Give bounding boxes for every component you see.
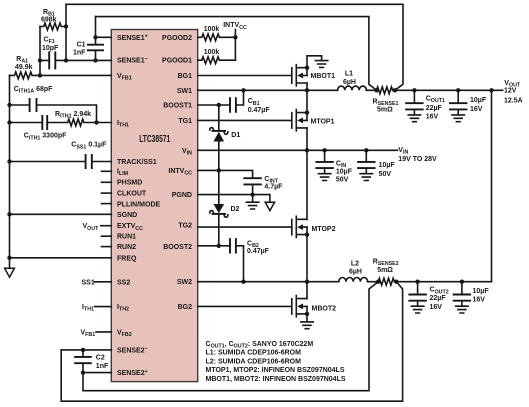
node MTOP1 source [305, 110, 309, 114]
svg-text:SS1: SS1 [82, 279, 95, 286]
wire PHSMD stub [102, 181, 112, 183]
node RSENSE2 right [394, 280, 398, 284]
svg-text:10µF: 10µF [336, 168, 353, 175]
wire ILIM stub [102, 170, 112, 172]
svg-text:1nF: 1nF [73, 50, 86, 57]
wire SENSE1+ kelvin top (to RSENSE1 left) [96, 17, 377, 91]
resistor RITH1 2.94k [47, 119, 111, 126]
svg-text:49.9k: 49.9k [15, 64, 33, 71]
svg-text:50V: 50V [379, 171, 392, 178]
inductor L2 6uH [339, 278, 368, 282]
svg-text:10µF: 10µF [470, 97, 487, 104]
svg-text:SW2: SW2 [177, 279, 192, 286]
svg-text:12V: 12V [504, 88, 517, 95]
node INTVCC pullup [233, 35, 237, 39]
svg-text:SENSE2−: SENSE2− [117, 346, 148, 354]
node RSENSE2 left [376, 280, 380, 284]
svg-text:6µH: 6µH [343, 79, 356, 86]
svg-text:4.7µF: 4.7µF [264, 184, 283, 191]
wire TRACK/SS1 net [10, 161, 112, 163]
svg-text:COUT1, COUT2: SANYO 1670C22M: COUT1, COUT2: SANYO 1670C22M [206, 341, 314, 350]
capacitor CB2 0.47uF [198, 246, 244, 282]
wire PGND net [198, 195, 270, 203]
node bus TRACK [7, 159, 11, 163]
svg-text:CITH1A 68pF: CITH1A 68pF [14, 86, 53, 95]
capacitor COUT1 22uF 16V [413, 90, 415, 103]
ground MBOT2 [301, 322, 313, 329]
resistor RSENSE1 5mohm [377, 87, 503, 94]
node bus SGND [7, 212, 11, 216]
svg-text:MBOT2: MBOT2 [312, 305, 337, 312]
svg-text:TRACK/SS1: TRACK/SS1 [117, 159, 157, 166]
svg-text:16V: 16V [473, 297, 486, 304]
node CIN [322, 148, 326, 152]
svg-text:L2: L2 [351, 260, 359, 267]
resistor RA1 49.9k [10, 72, 40, 79]
svg-text:BOOST2: BOOST2 [163, 244, 192, 251]
wire INTVCC net [198, 170, 253, 178]
svg-text:MBOT1: MBOT1 [311, 73, 336, 80]
svg-text:PGND: PGND [172, 192, 192, 199]
node VOUT rail [489, 88, 493, 92]
svg-text:TG2: TG2 [178, 222, 192, 229]
node 10uF ch1 [456, 88, 460, 92]
node SENSE1- / divider [64, 58, 68, 62]
svg-text:16V: 16V [430, 304, 443, 311]
svg-text:RSENSE2: RSENSE2 [373, 258, 399, 267]
wire FREQ net [10, 257, 112, 259]
node C2 top [81, 348, 85, 352]
node CB1 SW1 [241, 88, 245, 92]
svg-text:6µH: 6µH [349, 269, 362, 276]
svg-text:10pF: 10pF [42, 45, 59, 52]
svg-text:10µF: 10µF [379, 162, 396, 169]
svg-text:12.5A: 12.5A [504, 97, 523, 104]
wire CLKOUT stub [102, 192, 112, 194]
svg-text:SENSE1+: SENSE1+ [117, 34, 148, 42]
node SW1 [305, 88, 309, 92]
wire BG2 [198, 305, 292, 307]
svg-text:19V TO 28V: 19V TO 28V [398, 156, 437, 163]
svg-text:C2: C2 [96, 355, 105, 362]
wire MBOT2 source to ground [306, 306, 308, 322]
node RB1 right [64, 24, 68, 28]
svg-text:CLKOUT: CLKOUT [117, 191, 147, 198]
node COUT2 [415, 280, 419, 284]
diode D1 schottky [218, 105, 220, 170]
svg-text:CITH1 3300pF: CITH1 3300pF [24, 133, 67, 142]
capacitor CB1 0.47uF [198, 90, 244, 105]
svg-text:FREQ: FREQ [117, 255, 137, 262]
node D2 BOOST2 [217, 244, 221, 248]
svg-text:COUT2: COUT2 [430, 287, 449, 296]
diode D2 schottky [218, 170, 220, 245]
node ITH1 right [94, 120, 98, 124]
svg-text:100k: 100k [204, 26, 220, 33]
svg-text:CF1: CF1 [44, 37, 55, 46]
svg-text:22µF: 22µF [426, 105, 443, 112]
node SW2 [305, 280, 309, 284]
transistor MTOP1 [292, 110, 307, 131]
svg-text:COUT1: COUT1 [426, 96, 445, 105]
wire left SGND bus [9, 75, 11, 268]
svg-text:22µF: 22µF [430, 295, 447, 302]
svg-text:16V: 16V [426, 114, 439, 121]
svg-text:0.47µF: 0.47µF [248, 107, 271, 114]
node CINT PGND [250, 192, 254, 196]
svg-text:5mΩ: 5mΩ [377, 106, 393, 113]
svg-text:BOOST1: BOOST1 [163, 103, 192, 110]
svg-text:BG2: BG2 [178, 304, 193, 311]
resistor RSENSE2 5mohm [378, 278, 491, 285]
svg-text:VOUT: VOUT [83, 223, 100, 232]
svg-text:SENSE1−: SENSE1− [117, 57, 148, 65]
capacitor 10uF 50V (VIN) [365, 150, 367, 162]
wire MTOP2 drain to VIN [306, 150, 308, 219]
svg-text:ITH1: ITH1 [82, 304, 94, 313]
node COUT1 [412, 88, 416, 92]
capacitor 10uF 16V (VOUT ch2) [461, 282, 463, 295]
wire EXTVCC stub / node VOUT [101, 225, 112, 227]
node CB2 SW2 [241, 280, 245, 284]
svg-text:RUN2: RUN2 [117, 244, 136, 251]
wire C1 vertical / SENSE1+ kelvin corner x95.5 [95, 17, 97, 61]
node CF1 left [38, 58, 42, 62]
svg-text:CSS1 0.1µF: CSS1 0.1µF [71, 142, 107, 151]
node SENSE1+ [93, 35, 97, 39]
svg-text:SGND: SGND [117, 212, 137, 219]
svg-text:5mΩ: 5mΩ [377, 267, 393, 274]
capacitor C2 1nF [74, 357, 92, 363]
svg-text:MTOP1: MTOP1 [311, 118, 335, 125]
capacitor CF1 10pF [49, 51, 55, 69]
wire ITH2 stub / node ITH1 [95, 306, 112, 308]
svg-text:L2: SUMIDA CDEP106-6ROM: L2: SUMIDA CDEP106-6ROM [206, 358, 302, 365]
node D1 INTVCC [217, 168, 221, 172]
wire VFB2 stub / node VFB1 [96, 331, 111, 333]
wire SGND net [10, 213, 112, 215]
ground PGND arrow [265, 202, 274, 210]
svg-text:VFB1: VFB1 [81, 329, 96, 338]
svg-text:1nF: 1nF [96, 363, 109, 370]
svg-text:16V: 16V [470, 106, 483, 113]
node bus FREQ [7, 256, 11, 260]
wire ITH1 left segment [10, 122, 43, 124]
svg-text:10µF: 10µF [473, 288, 490, 295]
wire SENSE2- kelvin loop bottom [61, 282, 402, 402]
wire MTOP1 drain to VIN [306, 128, 308, 150]
wire VOUT right rail vertical [491, 90, 493, 281]
svg-text:0.47µF: 0.47µF [247, 248, 270, 255]
svg-text:D2: D2 [231, 206, 240, 213]
svg-text:VIN: VIN [398, 147, 408, 156]
svg-text:RUN1: RUN1 [117, 234, 136, 241]
wire SW2 rail [198, 281, 379, 283]
wire MBOT2 drain to SW2 [306, 282, 308, 299]
resistor 100k PGOOD1 pullup [198, 57, 236, 64]
IC U1 LTC3857-1 body [111, 30, 197, 382]
wire SS2 stub / node SS1 [95, 281, 112, 283]
svg-text:100k: 100k [204, 49, 220, 56]
node D1 BOOST1 [217, 103, 221, 107]
inductor L1 6uH [338, 86, 367, 90]
node VFB1 [38, 73, 42, 77]
node bus CITH1A [7, 103, 11, 107]
svg-text:L1: L1 [345, 71, 353, 78]
node 10uF VIN [364, 148, 368, 152]
svg-text:SS2: SS2 [117, 279, 130, 286]
wire CITH1A net [10, 105, 97, 123]
wire RUN2 stub [102, 246, 112, 248]
wire SENSE2+ kelvin loop bottom [83, 282, 378, 391]
svg-text:C1: C1 [77, 42, 86, 49]
svg-text:LTC38571: LTC38571 [139, 133, 170, 145]
svg-text:50V: 50V [336, 176, 349, 183]
wire TG2 [198, 226, 292, 228]
wire VIN rail [198, 149, 398, 151]
svg-text:L1: SUMIDA CDEP106-6ROM: L1: SUMIDA CDEP106-6ROM [206, 350, 302, 357]
capacitor CITH1 3300pF [42, 115, 47, 130]
transistor MBOT2 [292, 296, 307, 317]
svg-text:PGOOD1: PGOOD1 [162, 58, 192, 65]
capacitor CIN 10uF 50V [324, 150, 326, 162]
svg-text:MTOP1, MTOP2: INFINEON BSZ097N: MTOP1, MTOP2: INFINEON BSZ097N04LS [206, 367, 345, 374]
capacitor CSS1 0.1uF [86, 154, 92, 169]
wire MBOT1 drain to SW1 [306, 83, 308, 90]
wire TG1 [198, 119, 292, 121]
svg-text:MBOT1, MBOT2: INFINEON BSZ097N: MBOT1, MBOT2: INFINEON BSZ097N04LS [206, 376, 346, 383]
svg-text:698k: 698k [41, 17, 57, 24]
wire SENSE2- net [61, 349, 111, 351]
node MBOT2 source [305, 312, 309, 316]
svg-text:CB1: CB1 [248, 98, 260, 107]
node INTVCC pullup [234, 30, 236, 61]
capacitor 10uF 16V (VOUT ch1) [457, 90, 459, 103]
svg-text:PLLIN/MODE: PLLIN/MODE [117, 201, 160, 208]
wire RB1 left vertical x40 [39, 27, 41, 76]
wire VOUT sense feedback top (to RSENSE1 right) [66, 4, 403, 90]
wire VFB1 pin [40, 74, 111, 76]
transistor MBOT1 [292, 65, 307, 86]
wire SENSE2+ net [83, 372, 111, 374]
svg-text:BG1: BG1 [178, 73, 193, 80]
node C2 bottom [81, 370, 85, 374]
capacitor COUT2 22uF 16V [417, 282, 419, 295]
capacitor CITH1A 68pF [30, 98, 37, 112]
transistor MTOP2 [292, 216, 307, 237]
svg-text:PGOOD2: PGOOD2 [162, 35, 192, 42]
capacitor CINT 4.7uF [243, 178, 261, 184]
ground SGND arrow left [5, 268, 15, 277]
capacitor C1 1nF [87, 45, 104, 51]
svg-text:PHSMD: PHSMD [117, 179, 142, 186]
svg-text:SENSE2+: SENSE2+ [117, 369, 148, 377]
node MTOP2 source [305, 232, 309, 236]
svg-text:D1: D1 [231, 132, 240, 139]
wire SW1 rail [198, 89, 377, 91]
node C1 bottom [93, 58, 97, 62]
wire SENSE1+ pin [96, 36, 112, 38]
wire MTOP2 source to SW2 [306, 227, 308, 282]
resistor 100k PGOOD2 pullup [198, 34, 236, 41]
node 10uF ch2 [460, 280, 464, 284]
node bus ITH1 [7, 120, 11, 124]
wire SENSE1- net y60.4 [40, 59, 111, 61]
wire RUN1 stub [102, 235, 112, 237]
wire MTOP1 source to SW1 [306, 90, 308, 120]
wire BG1 [198, 75, 292, 77]
node MTOP1 drain VIN [305, 148, 309, 152]
svg-text:TG1: TG1 [178, 118, 192, 125]
ground MBOT1 [315, 61, 327, 68]
svg-text:MTOP2: MTOP2 [312, 226, 336, 233]
node MBOT1 source [305, 66, 309, 70]
wire MBOT1 source to ground hook [307, 56, 322, 76]
node RSENSE1 left [374, 88, 378, 92]
ground CINT [246, 202, 258, 209]
svg-text:SW1: SW1 [177, 88, 192, 95]
resistor RB1 698k [40, 23, 66, 30]
wire PLLIN/MODE stub [102, 203, 112, 205]
wire node FB divider vertical x66 [65, 4, 67, 60]
node RSENSE1 right [393, 88, 397, 92]
